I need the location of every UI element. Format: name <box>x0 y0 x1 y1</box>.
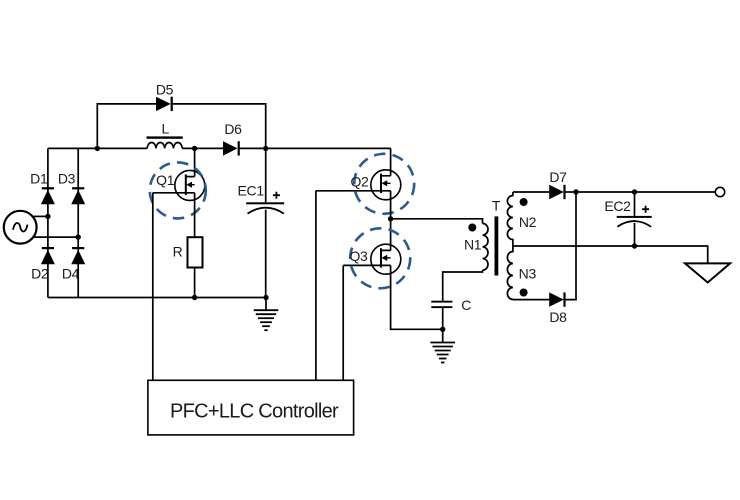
node D5 branch junction <box>95 146 100 151</box>
resistor R <box>188 237 203 267</box>
inductor L core bar <box>147 136 183 138</box>
controller box U1 <box>148 380 354 435</box>
svg-text:EC2: EC2 <box>604 198 631 214</box>
node EC1 ground junction <box>263 295 268 300</box>
ground under C <box>430 329 455 362</box>
node R bottom junction <box>192 295 197 300</box>
EC1 plus sign <box>273 192 280 199</box>
capacitor EC1 <box>246 202 284 213</box>
svg-text:L: L <box>162 120 170 136</box>
AC source V1 <box>4 211 37 244</box>
svg-text:PFC+LLC Controller: PFC+LLC Controller <box>170 400 339 422</box>
wire N1 bottom to resonant cap C <box>443 270 483 301</box>
node L / Q1 / D6 junction <box>192 146 197 151</box>
wire EC1 top lead <box>265 148 267 202</box>
svg-text:D4: D4 <box>62 265 80 281</box>
svg-text:D2: D2 <box>31 265 49 281</box>
svg-text:C: C <box>461 297 471 313</box>
transformer primary N1 <box>483 223 489 270</box>
svg-text:Q1: Q1 <box>156 172 175 188</box>
wire center tap rail <box>513 246 708 263</box>
wire EC2 bottom lead <box>634 223 636 246</box>
diode D7 <box>549 185 565 199</box>
svg-text:R: R <box>173 244 183 260</box>
diode D6 <box>223 141 240 155</box>
diode D4 <box>71 247 85 264</box>
wire half-bridge midpoint <box>390 191 392 251</box>
N1 phase dot <box>468 224 476 232</box>
inductor L <box>147 142 182 148</box>
transistor Q1 <box>153 170 205 200</box>
dashed highlight circle around Q1 <box>150 162 206 218</box>
wire Q2 drain <box>390 148 392 175</box>
svg-text:T: T <box>492 198 501 214</box>
wire N3 bottom to D8 <box>513 299 549 301</box>
output terminal <box>715 187 724 196</box>
transistor Q3 <box>343 244 401 274</box>
svg-text:Q3: Q3 <box>349 248 368 264</box>
node D6 / EC1 / bus junction <box>263 146 268 151</box>
wire output positive rail <box>576 191 715 193</box>
wire AC bottom lead <box>33 236 78 238</box>
EC2 plus sign <box>642 206 649 213</box>
wire bridge bottom <box>48 297 266 299</box>
diode D3 <box>71 187 85 204</box>
transistor Q2 <box>316 170 401 200</box>
wire R bottom <box>194 268 196 298</box>
ground under EC1 <box>254 298 279 331</box>
node EC2 bottom junction <box>632 243 637 248</box>
node C ground junction <box>440 327 445 332</box>
diode D5 <box>156 97 173 111</box>
wire D7 cathode to output node <box>566 191 576 193</box>
wire bridge left leg <box>47 148 49 297</box>
wire EC2 top lead <box>634 192 636 216</box>
wire Q1 source to R <box>194 193 196 237</box>
transformer secondary N2 <box>507 192 512 246</box>
wire midpoint to N1 top <box>391 219 483 224</box>
wire Q3 source down <box>391 265 443 329</box>
wire main top bus <box>48 147 391 149</box>
svg-text:D8: D8 <box>549 309 567 325</box>
wire Q2 gate down to controller <box>315 191 317 380</box>
wire EC1 bottom lead <box>265 210 267 298</box>
wire D5 bypass branch <box>97 104 265 148</box>
wire rectifier cathode bus <box>566 192 576 300</box>
output ground triangle <box>685 263 730 282</box>
svg-text:D3: D3 <box>58 171 76 187</box>
node half-bridge midpoint junction <box>388 216 393 221</box>
svg-text:D5: D5 <box>156 82 174 98</box>
capacitor C <box>431 301 452 308</box>
node D7 output junction <box>573 189 578 194</box>
wire C bottom <box>442 308 444 329</box>
transformer secondary N3 <box>507 246 512 300</box>
wire N2 top to D7 <box>513 191 549 193</box>
svg-text:N1: N1 <box>464 237 482 253</box>
node AC to D3 leg <box>76 234 81 239</box>
wire Q3 gate down to controller <box>342 265 344 380</box>
svg-text:EC1: EC1 <box>238 183 265 199</box>
svg-text:D7: D7 <box>549 169 567 185</box>
N2 phase dot <box>520 198 528 206</box>
diode D1 <box>41 187 55 204</box>
diode D2 <box>41 247 55 264</box>
diode D8 <box>549 292 565 306</box>
capacitor EC2 <box>617 216 652 227</box>
wire bridge right leg <box>77 148 79 297</box>
node EC2 top junction <box>632 189 637 194</box>
svg-text:N3: N3 <box>519 266 537 282</box>
svg-text:D1: D1 <box>30 171 48 187</box>
dashed highlight circle around Q3 <box>350 228 410 288</box>
svg-text:N2: N2 <box>519 214 537 230</box>
svg-text:Q2: Q2 <box>350 174 369 190</box>
svg-text:D6: D6 <box>224 121 242 137</box>
dashed highlight circle around Q2 <box>354 154 414 214</box>
N3 phase dot <box>520 289 528 297</box>
transformer core T <box>495 216 499 275</box>
wire Q1 drain <box>194 148 196 176</box>
wire AC top lead <box>33 215 48 217</box>
node AC to D1 leg <box>45 214 50 219</box>
wire Q1 gate down to controller <box>152 193 154 380</box>
